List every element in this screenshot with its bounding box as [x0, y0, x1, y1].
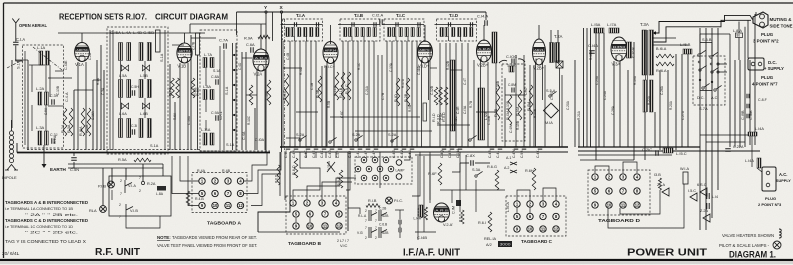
svg-text:C.IOC: C.IOC — [506, 54, 517, 59]
ganged capacitor rotor 2 — [121, 103, 128, 109]
svg-text:C.4A: C.4A — [242, 131, 246, 140]
lower middle connecting wires — [300, 152, 320, 176]
svg-text:R.1C: R.1C — [357, 62, 361, 70]
IF transformer T.I.B enclosure — [340, 19, 380, 41]
anode line V.2A to C.14A — [237, 11, 487, 13]
svg-text:L.I4A: L.I4A — [745, 159, 754, 163]
svg-text:C.8M: C.8M — [508, 83, 516, 87]
svg-text:SIDE TONE: SIDE TONE — [770, 24, 793, 29]
svg-text:TAGBOARDS A & B INTERCONNECTED: TAGBOARDS A & B INTERCONNECTED — [5, 200, 88, 205]
tagboard A enclosure — [192, 173, 247, 213]
muting & side tone plug — [753, 12, 768, 28]
svg-text:11: 11 — [621, 203, 626, 208]
valve test panel jacks — [361, 157, 367, 163]
box3 wires — [205, 68, 207, 86]
svg-text:R.8C: R.8C — [196, 87, 200, 96]
power left verticals — [578, 120, 580, 147]
resistor R.6D small — [461, 210, 464, 224]
svg-text:C.1B: C.1B — [310, 83, 314, 90]
svg-text:R.15B: R.15B — [516, 121, 520, 130]
coil L.4A pair — [119, 43, 123, 61]
svg-text:T.I.D: T.I.D — [449, 13, 458, 18]
svg-text:L.4B C.I5B: L.4B C.I5B — [133, 31, 155, 35]
svg-text:T.I.C: T.I.C — [396, 13, 406, 18]
svg-text:L.8A: L.8A — [203, 84, 211, 89]
svg-text:MUTING &: MUTING & — [770, 17, 793, 22]
rf mid wires — [169, 64, 171, 150]
svg-text:C.I4B: C.I4B — [417, 235, 427, 240]
svg-text:S.1A: S.1A — [225, 86, 229, 95]
svg-text:V.1A: V.1A — [75, 62, 84, 67]
svg-text:ARP34: ARP34 — [419, 48, 431, 52]
svg-text:C.6.B: C.6.B — [379, 223, 388, 227]
svg-text:RECEPTION SETS R.IO7.: RECEPTION SETS R.IO7. — [59, 12, 147, 22]
svg-text:R.6.I: R.6.I — [478, 221, 486, 225]
AC supply plug — [762, 167, 776, 191]
svg-text:12: 12 — [635, 203, 640, 208]
resistor R.3B — [318, 76, 322, 102]
svg-text:R.9A: R.9A — [244, 36, 253, 41]
svg-text:A.R.8: A.R.8 — [435, 208, 448, 212]
svg-text:L.I4A: L.I4A — [755, 127, 764, 131]
svg-text:V.3A: V.3A — [612, 62, 621, 67]
resistor R.14A — [518, 90, 522, 120]
svg-text:20/ 6/4L: 20/ 6/4L — [2, 251, 20, 257]
svg-text:C.7A: C.7A — [219, 38, 228, 43]
svg-text:R.L.A: R.L.A — [358, 214, 367, 218]
svg-text:I.F./A.F. UNIT: I.F./A.F. UNIT — [403, 248, 460, 259]
svg-text:C.9B: C.9B — [520, 150, 524, 158]
S.7A contacts — [698, 50, 706, 56]
svg-text:T.I.A: T.I.A — [296, 13, 306, 18]
svg-text:TAGBOARD A: TAGBOARD A — [207, 221, 242, 226]
svg-text:C.18A: C.18A — [187, 115, 191, 125]
drop wire to T1A — [272, 12, 274, 41]
svg-text:C.4.A: C.4.A — [65, 92, 69, 102]
svg-text:C.3I: C.3I — [131, 124, 137, 128]
svg-text:C.17C: C.17C — [550, 90, 554, 100]
svg-text:R.14B: R.14B — [533, 109, 537, 118]
rf wires left group — [92, 80, 94, 150]
svg-text:A.C.: A.C. — [711, 96, 718, 100]
open aerial terminal — [12, 19, 19, 28]
svg-text:12: 12 — [238, 203, 243, 208]
svg-text:C.I4.A: C.I4.A — [477, 14, 488, 19]
svg-text:I.5.C: I.5.C — [688, 189, 696, 193]
svg-text:C.4H: C.4H — [292, 150, 296, 158]
svg-text:ARP34: ARP34 — [76, 48, 88, 52]
svg-text:C.13B: C.13B — [56, 86, 60, 95]
svg-text:L.8.A: L.8.A — [733, 29, 742, 33]
resistor R.15A — [529, 85, 533, 115]
svg-text:i.e TERMINAL 1A CONNECTED T: i.e TERMINAL 1A CONNECTED TO 1B — [5, 206, 73, 211]
svg-text:C.5A: C.5A — [44, 107, 48, 115]
svg-text:C.21A: C.21A — [365, 85, 369, 95]
svg-text:C.6A: C.6A — [246, 42, 255, 47]
svg-text:7: 7 — [365, 219, 367, 223]
svg-text:11: 11 — [323, 224, 328, 229]
svg-text:PILOT & SCALE LAMPS -: PILOT & SCALE LAMPS - — [719, 243, 770, 248]
svg-text:12: 12 — [337, 224, 342, 229]
svg-text:V.I3: V.I3 — [357, 231, 363, 235]
svg-text:L.7A: L.7A — [204, 52, 212, 57]
svg-text:R.4.B: R.4.B — [195, 197, 204, 201]
svg-text:R.I3A: R.I3A — [506, 110, 510, 120]
AF output stage wires — [423, 156, 425, 232]
svg-text:C.4R: C.4R — [448, 150, 452, 158]
resistor R.6F — [438, 163, 442, 185]
svg-text:V.IC: V.IC — [340, 243, 348, 248]
svg-text:SUPPLY: SUPPLY — [776, 179, 791, 183]
svg-text:C.4E: C.4E — [312, 150, 316, 158]
svg-text:R.6.G: R.6.G — [487, 165, 497, 169]
svg-text:7: 7 — [120, 192, 122, 196]
power horizontals mid — [580, 159, 634, 161]
svg-text:R.10C: R.10C — [247, 115, 251, 125]
T.I.A tuning wire — [281, 24, 323, 26]
svg-text:C.22A: C.22A — [733, 145, 744, 149]
resistor R.6B — [420, 205, 423, 218]
coil L.6B pair — [139, 119, 143, 138]
svg-text:ARP34: ARP34 — [325, 48, 337, 52]
svg-text:C.9C: C.9C — [524, 87, 528, 95]
svg-text:V.9.A: V.9.A — [327, 161, 331, 170]
svg-text:A/2: A/2 — [486, 243, 492, 247]
S.6 output contacts — [717, 63, 719, 65]
svg-text:W.I.A: W.I.A — [680, 167, 690, 171]
svg-text:C.4R: C.4R — [456, 106, 460, 114]
svg-text:7: 7 — [375, 209, 377, 213]
IF horizontal mesh — [283, 67, 302, 69]
svg-text:PLUG: PLUG — [761, 32, 774, 37]
svg-text:P.I.B: P.I.B — [98, 184, 106, 189]
svg-text:V.2.A': V.2.A' — [443, 222, 453, 227]
svg-text:C.8.F: C.8.F — [758, 98, 768, 102]
svg-text:C.4K: C.4K — [320, 150, 324, 158]
svg-text:V.I.B: V.I.B — [130, 209, 138, 213]
tagboard A terminals — [199, 178, 205, 184]
power unit bus lines — [578, 146, 700, 148]
svg-text:NOTE:: NOTE: — [157, 235, 171, 240]
wires to tagboard D — [595, 166, 609, 173]
svg-text:R.7A: R.7A — [169, 87, 173, 96]
svg-text:OPEN AERIAL: OPEN AERIAL — [19, 23, 47, 28]
svg-text:R.6.D: R.6.D — [459, 213, 463, 222]
svg-text:R.6.E: R.6.E — [337, 176, 341, 186]
svg-text:L.I7A: L.I7A — [607, 22, 617, 27]
S.4A inner hatch — [509, 66, 514, 72]
svg-text:S.6.B: S.6.B — [702, 37, 712, 42]
T.I.B legs — [351, 37, 353, 42]
svg-text:7: 7 — [139, 176, 141, 180]
svg-text:VALVE TEST PANEL VIEWED FR: VALVE TEST PANEL VIEWED FROM FRONT OF SE… — [157, 243, 257, 248]
valve V.1D (3rd IF amp) — [418, 41, 433, 69]
svg-text:C.4Q: C.4Q — [440, 150, 444, 158]
svg-text:L.I4: L.I4 — [712, 195, 718, 199]
rectifier valve V.3A — [611, 37, 627, 67]
resistor R.11B — [341, 72, 345, 100]
tagboard C enclosure — [506, 196, 566, 236]
svg-text:4 POINT Nº7: 4 POINT Nº7 — [752, 82, 778, 87]
svg-text:S.1A: S.1A — [17, 60, 21, 69]
svg-text:CIRCUIT DIAGRAM: CIRCUIT DIAGRAM — [155, 12, 228, 22]
IF unit vertical wires — [282, 41, 284, 147]
svg-text:T.I.B: T.I.B — [354, 13, 363, 18]
svg-text:2: 2 — [365, 209, 367, 213]
svg-text:C.I9B: C.I9B — [741, 110, 745, 120]
svg-text:2: 2 — [365, 236, 367, 240]
svg-text:PLUG: PLUG — [761, 75, 774, 80]
resistor R.4C — [285, 74, 289, 106]
valve V.2A output AF — [434, 203, 450, 222]
resistor R.6.E — [339, 170, 343, 188]
resistor R.6C — [425, 207, 428, 220]
svg-text:R350: R350 — [613, 45, 626, 49]
svg-text:11: 11 — [541, 227, 546, 232]
af choke L.12A — [478, 88, 485, 140]
svg-text:7: 7 — [375, 226, 377, 230]
capacitor C.8M — [512, 88, 514, 93]
earth symbol — [43, 152, 45, 166]
svg-text:S.1A: S.1A — [53, 135, 57, 144]
svg-text:C.4B: C.4B — [284, 150, 288, 158]
svg-text:ARTH4: ARTH4 — [179, 49, 191, 53]
svg-text:R.19A: R.19A — [633, 75, 637, 85]
svg-text:i.e TERMINAL 1C CONNECTED T: i.e TERMINAL 1C CONNECTED TO 1D — [5, 224, 73, 229]
resistor R.8C — [191, 78, 195, 98]
coil L.5B pair — [139, 80, 143, 98]
S.6 inner frame — [700, 43, 712, 91]
svg-text:C.4T: C.4T — [463, 78, 467, 85]
svg-text:C.6C: C.6C — [340, 110, 344, 118]
svg-text:C.4R: C.4R — [488, 150, 492, 158]
svg-text:C.13A: C.13A — [389, 62, 393, 72]
tagboard D terminals — [592, 174, 598, 180]
switch shaft S.1A — [232, 43, 234, 150]
resistor R.10B — [267, 80, 271, 105]
svg-text:L.3A: L.3A — [36, 125, 45, 130]
power lower wires — [620, 190, 660, 214]
coil L.5A pair — [119, 80, 123, 98]
svg-text:R.22A: R.22A — [647, 95, 651, 105]
svg-text:C.I3A: C.I3A — [463, 105, 467, 114]
resistor R.10A — [396, 78, 400, 106]
svg-text:C.I4A: C.I4A — [588, 43, 598, 48]
rf choke L.9A — [492, 32, 497, 63]
svg-text:C.20A: C.20A — [566, 100, 570, 110]
svg-text:LAMP: LAMP — [396, 169, 406, 173]
svg-text:R.20A: R.20A — [669, 100, 673, 110]
svg-text:M.R.1: M.R.1 — [219, 111, 223, 120]
resistor R.5C — [347, 72, 351, 100]
tagboard D enclosure — [588, 170, 650, 215]
wires to tagboard B — [293, 176, 320, 199]
svg-text:EARTH: EARTH — [50, 167, 67, 172]
resistor R.13A — [508, 95, 512, 125]
svg-text:R.12B: R.12B — [446, 61, 450, 70]
valve V.1A — [75, 43, 90, 68]
svg-text:R.I.D: R.I.D — [432, 113, 436, 122]
capacitors L.14 — [707, 193, 709, 199]
svg-text:M.IA: M.IA — [545, 121, 553, 125]
valve V.2C AF amp — [533, 39, 546, 71]
svg-text:C.24A: C.24A — [603, 90, 607, 100]
svg-text:B.I6.A: B.I6.A — [656, 47, 667, 51]
tagboard C terminals — [514, 201, 520, 207]
svg-text:V.2A: V.2A — [254, 72, 263, 77]
resistor R.5D — [444, 87, 448, 105]
svg-text:R.1A: R.1A — [96, 77, 100, 85]
svg-text:R.6.D: R.6.D — [275, 174, 279, 183]
trimmer C.15B riser — [156, 30, 161, 52]
rf horizontal mesh — [58, 32, 205, 34]
wires to muting plug — [755, 12, 757, 15]
svg-text:REL.IA: REL.IA — [484, 237, 496, 241]
IF unit bottom bus — [280, 146, 568, 148]
ganged capacitor rotor 1 — [121, 65, 128, 71]
svg-text:R.2B: R.2B — [404, 93, 408, 102]
svg-text:S.3A: S.3A — [472, 168, 481, 172]
IF unit dash-dot left border — [284, 19, 286, 150]
rf coil box 1 dashed enclosure — [23, 45, 64, 148]
V.1B legs — [179, 63, 181, 150]
T.I.B tuning wire — [338, 24, 380, 26]
svg-text:V.2B+: V.2B+ — [533, 66, 545, 71]
T.I.C legs — [395, 37, 397, 42]
svg-text:C.2IC: C.2IC — [642, 147, 652, 152]
wire tap 2 — [700, 33, 730, 35]
rf unit bottom bus — [17, 152, 270, 154]
svg-text:C.20.B: C.20.B — [632, 47, 636, 58]
wires rf lower — [244, 152, 267, 181]
svg-text:A.R.8: A.R.8 — [478, 47, 490, 51]
IF transformer T.I.D enclosure — [437, 19, 477, 41]
svg-text:V.2B+: V.2B+ — [477, 63, 489, 68]
svg-text:R.I.B: R.I.B — [368, 199, 377, 203]
svg-text:TAGBOARDS VIEWED FROM REAR: TAGBOARDS VIEWED FROM REAR OF SET. — [172, 235, 257, 240]
T.I.D tuning wire — [435, 24, 477, 26]
svg-text:R.13B: R.13B — [506, 101, 510, 110]
T.I.A legs — [294, 37, 296, 42]
svg-text:R.5.C: R.5.C — [345, 84, 349, 94]
svg-text:R.2A: R.2A — [61, 124, 65, 133]
svg-text:C.I8B: C.I8B — [749, 110, 753, 120]
coil L.10A output — [419, 205, 423, 217]
svg-text:I3.B: I3.B — [654, 173, 661, 177]
resistor R.10A — [249, 85, 253, 105]
tagboard B terminals — [290, 200, 296, 206]
T.I.D coils — [440, 28, 443, 37]
svg-text:6.S.C: 6.S.C — [697, 183, 707, 187]
coil L.6A pair — [119, 119, 123, 138]
resistor R.2A — [63, 108, 67, 136]
resistor R.7A — [171, 78, 175, 98]
svg-text:L.I5.C: L.I5.C — [676, 151, 687, 156]
trimmer riser C.8L — [423, 103, 427, 121]
svg-text:R.4B: R.4B — [222, 169, 231, 173]
svg-text:D.C.: D.C. — [697, 96, 705, 100]
dipole feeder — [9, 131, 13, 135]
svg-text:Z.2A: Z.2A — [700, 209, 708, 213]
svg-text:A.C.: A.C. — [779, 172, 787, 177]
svg-text:C.8A: C.8A — [211, 75, 220, 79]
svg-text:R.18A: R.18A — [589, 50, 593, 60]
rf coil box 3 dashed enclosure — [200, 30, 237, 151]
coil L.15C — [663, 148, 673, 153]
svg-text:12: 12 — [554, 227, 559, 232]
svg-text:2: 2 — [375, 236, 377, 240]
switch S.2A contacts — [299, 135, 307, 141]
T.I.B coils — [344, 28, 347, 37]
svg-text:10: 10 — [308, 224, 313, 229]
valve V.2B detector — [477, 40, 492, 68]
svg-text:PLUG: PLUG — [765, 196, 776, 201]
svg-text:3 POINT Nº2: 3 POINT Nº2 — [753, 39, 779, 44]
svg-text:R.3A: R.3A — [67, 124, 71, 133]
svg-text:TAGBOARD D: TAGBOARD D — [598, 218, 641, 223]
resistor R.3A — [69, 108, 73, 136]
resistor R.4A — [186, 191, 190, 205]
svg-text:L.I6.A: L.I6.A — [506, 202, 510, 212]
svg-text:R.IO: R.IO — [394, 94, 398, 102]
svg-text:C.4D: C.4D — [328, 150, 332, 158]
output jack box — [556, 61, 563, 68]
svg-text:C.4IM: C.4IM — [509, 124, 513, 133]
svg-text:R.21A: R.21A — [577, 110, 581, 120]
svg-text:2: 2 — [120, 179, 122, 183]
resistor R.6.D — [294, 158, 298, 178]
svg-text:C.16B: C.16B — [496, 81, 500, 90]
resistor R.6.I — [488, 212, 492, 232]
V.1A legs — [77, 62, 79, 150]
resistor R.6.P — [277, 165, 280, 185]
resistor R.3D — [439, 87, 443, 105]
svg-text:C.I7B: C.I7B — [192, 41, 196, 50]
rf tuner box dashed enclosure — [107, 27, 168, 154]
svg-text:R.5A: R.5A — [118, 157, 127, 162]
svg-text:R.6F: R.6F — [428, 171, 437, 176]
svg-text:R.17A: R.17A — [401, 78, 405, 88]
svg-text:L.1A: L.1A — [37, 45, 46, 50]
svg-text:R.6.D: R.6.D — [292, 165, 296, 175]
svg-text:C.IM: C.IM — [452, 206, 456, 214]
trimmer C.17B — [196, 33, 200, 55]
svg-text:R.I6A: R.I6A — [79, 126, 83, 136]
svg-text:L.6B: L.6B — [140, 112, 148, 116]
T.I.B trimmer capacitors — [352, 22, 354, 27]
svg-text:L.I5.B: L.I5.B — [680, 42, 691, 47]
svg-text:2 POINT Nº3: 2 POINT Nº3 — [758, 202, 782, 207]
resistor R.7B — [496, 85, 500, 120]
svg-text:T.3A: T.3A — [640, 22, 649, 27]
DC supply plug — [748, 58, 764, 70]
V.2A legs — [256, 70, 258, 150]
wire aerial to L1A — [16, 46, 23, 62]
svg-text:C.28A: C.28A — [611, 105, 615, 115]
resistor R.8A — [176, 78, 180, 98]
HT loop wire A — [652, 15, 753, 33]
IF transformer T.I.A enclosure — [283, 19, 323, 41]
svg-text:10: 10 — [528, 227, 533, 232]
svg-text:R.4A: R.4A — [197, 169, 206, 173]
svg-text:C.I3E: C.I3E — [64, 60, 68, 70]
svg-text:A.1: A.1 — [506, 156, 511, 160]
bundle drops to DC plug — [744, 27, 746, 60]
relay box outline — [109, 176, 171, 216]
svg-text:VALVE HEATERS SHOWN: VALVE HEATERS SHOWN — [722, 233, 774, 238]
svg-text:DIPOLE: DIPOLE — [2, 175, 17, 180]
S-curve leads — [499, 59, 525, 63]
